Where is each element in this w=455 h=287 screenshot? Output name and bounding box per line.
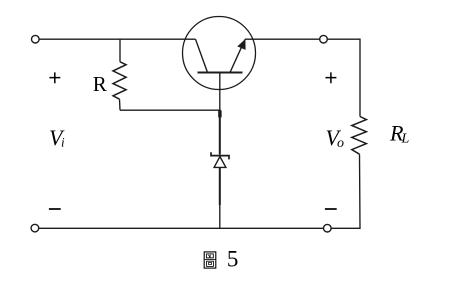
transistor Q1 emitter diagonal [230,39,245,72]
wire zener to bottom rail [219,205,221,228]
input terminal top-left [32,35,40,43]
wire R-to-base horizontal [120,109,220,111]
junction blob base node [218,110,221,117]
label minus output [325,208,337,210]
wire zener bottom lead [219,168,221,205]
caption glyph 圖 [204,252,216,268]
input terminal bottom-left [31,224,39,232]
wire RL bottom to bottom rail [331,154,360,228]
resistor R [113,62,126,99]
label minus input [49,208,61,210]
output terminal top-right [320,35,328,43]
svg-text:R: R [93,72,107,96]
output terminal bottom-right [324,224,332,232]
wire zener top lead [219,110,221,155]
svg-text:5: 5 [227,246,239,271]
wire base lead upper [219,73,221,111]
zener diode D1 triangle [214,157,226,168]
svg-text:o: o [337,136,344,151]
wire bottom rail [39,227,324,229]
wire top rail right [245,38,320,40]
node R-top junction [119,39,121,62]
wire terminal to right rail [327,39,360,116]
label plus input [49,72,60,83]
transistor Q1 emitter arrowhead [237,39,245,50]
svg-text:i: i [61,135,65,150]
resistor RL [352,117,367,155]
wire R bottom lead [119,99,122,110]
svg-text:L: L [401,132,410,147]
wire top rail left [40,38,196,40]
label plus output [326,72,337,83]
transistor Q1 base bar [198,72,243,74]
zener diode D1 cathode bar [211,152,229,159]
transistor Q1 collector diagonal [196,39,208,72]
transistor Q1 body circle [183,17,256,90]
